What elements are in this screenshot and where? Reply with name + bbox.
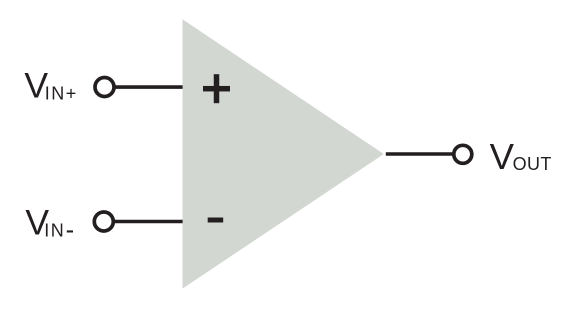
op-amp inverting input marker -: [208, 218, 224, 223]
terminal VIN-: [94, 212, 113, 231]
wire VIN- input to op-amp: [113, 220, 183, 224]
wire VIN+ input to op-amp: [114, 85, 183, 89]
op-amp U1 body: [183, 19, 384, 288]
terminal VOUT: [454, 145, 472, 163]
svg-text:OUT: OUT: [513, 154, 552, 174]
svg-text:IN+: IN+: [45, 84, 78, 104]
svg-text:V: V: [490, 136, 515, 177]
label VIN+: [24, 66, 77, 106]
svg-text:IN: IN: [44, 221, 65, 241]
label VOUT: [490, 136, 552, 177]
terminal VIN+: [95, 78, 114, 97]
op-amp non-inverting input marker +: [203, 74, 230, 103]
wire op-amp output to VOUT: [386, 152, 453, 156]
label VIN-: [25, 203, 73, 243]
